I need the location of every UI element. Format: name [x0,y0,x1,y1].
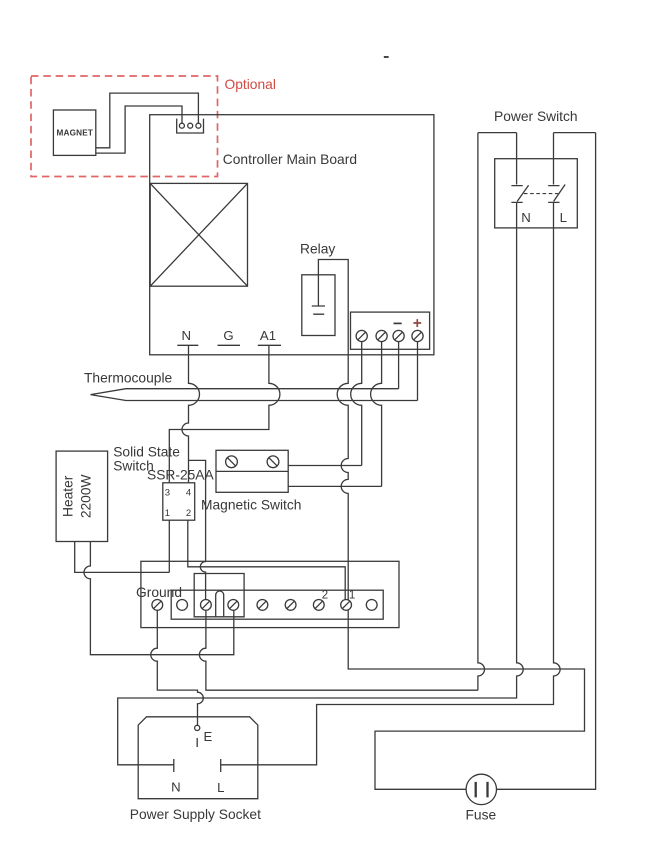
power switch pole L contacts [548,185,565,203]
svg-text:2200W: 2200W [79,474,94,518]
magnet MAGNET box [53,110,95,155]
wire magnet lower [96,106,182,153]
wire strip screw3 to power switch N side [199,610,478,690]
svg-text:2: 2 [322,590,328,602]
svg-text:Power Switch: Power Switch [494,109,578,124]
svg-text:Controller Main Board: Controller Main Board [223,152,357,167]
wire power switch N pole to socket N [118,133,524,765]
wire heater left to SSR pin1 [75,542,170,573]
power switch coupling dashed link [524,193,558,195]
wire SSR pin2 to strip screw8 [188,520,345,599]
node N underline [177,344,198,346]
svg-text:Heater: Heater [61,475,76,517]
ground strip inner box screws 3-4 [194,574,244,617]
relay K1 box [302,275,335,336]
wire SSR pin1 down [168,520,170,572]
terminal block TB1 on board [351,312,430,349]
transformer T1 [150,183,247,286]
wire magnetic switch bottom contact [288,485,381,487]
wire power switch outer N riser [478,133,485,691]
wire power switch L pole to socket L [221,133,560,765]
optional dashed box [31,76,218,177]
wire power switch top bridges [478,132,596,134]
svg-text:Fuse: Fuse [466,807,497,822]
node A1 underline [258,344,281,346]
wire fuse right to power switch outer L [497,133,596,790]
svg-text:N: N [182,328,192,343]
svg-text:L: L [217,780,224,795]
ground strip screws [152,600,377,611]
svg-text:Optional: Optional [225,77,276,92]
controller main board outline [150,115,434,355]
svg-text:MAGNET: MAGNET [56,129,93,138]
thermocouple probe [91,389,418,401]
socket N pin [173,759,175,772]
wire ground screw to socket E [151,610,204,725]
wire N to SSR pin4 and ground strip screw3 [182,346,206,600]
svg-text:Power Supply Socket: Power Supply Socket [130,807,261,822]
svg-text:1: 1 [165,508,170,519]
wire TB1 screw3 to thermocouple [398,342,400,389]
wire heater right to strip screw4 [84,542,234,655]
power switch S1 box [495,159,578,228]
solid state relay U1 SSR-25AA [163,483,195,520]
wire TB1 screw2 to magnetic switch [371,342,382,487]
svg-text:Ground: Ground [136,585,182,600]
svg-text:Solid State: Solid State [113,445,180,460]
svg-text:2: 2 [186,508,191,519]
label plus [413,319,421,327]
wire A1 to SSR pin3 [169,346,280,483]
wire magnetic switch top contact [288,465,362,467]
svg-text:SSR-25AA: SSR-25AA [147,468,215,483]
svg-text:Magnetic Switch: Magnetic Switch [201,498,301,513]
svg-text:E: E [204,729,213,744]
svg-text:L: L [560,210,567,225]
power supply socket outline [138,717,258,799]
socket E terminal [195,725,200,747]
svg-text:G: G [223,328,233,343]
socket L pin [220,759,222,772]
svg-text:A1: A1 [260,328,276,343]
ground strip screw row box [171,590,383,619]
fuse F1 [466,774,496,804]
svg-text:Thermocouple: Thermocouple [84,371,173,386]
stray ink mark [384,56,389,58]
power switch pole N contacts [511,185,528,202]
svg-text:4: 4 [186,488,192,499]
svg-text:Relay: Relay [300,242,335,257]
wire magnet upper [96,93,199,148]
ground terminal strip outer box [141,561,399,627]
svg-text:1: 1 [349,590,355,602]
svg-text:N: N [521,210,531,225]
wire TB1 screw4 to thermocouple [417,342,419,401]
wire TB1 screw1 to magnetic switch [351,342,362,466]
connector J1 3-pin [177,119,204,133]
svg-text:N: N [171,780,181,795]
heater R1 2200W box [56,451,108,541]
svg-text:3: 3 [165,488,170,499]
magnetic switch S2 [216,450,288,492]
label minus [394,322,402,324]
node G underline [218,344,241,346]
wire relay pin to fuse left [318,260,584,790]
